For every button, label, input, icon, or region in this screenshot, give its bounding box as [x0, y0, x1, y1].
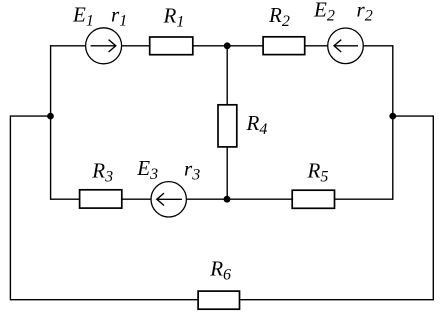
source E3 (circle with left arrow)	[151, 182, 186, 217]
node B: right junction	[389, 113, 396, 120]
wire: bottom horizontal net through R6 y=299.7	[10, 299, 433, 301]
svg-text:R4: R4	[246, 111, 268, 138]
wire: outer left vertical x=10.4	[9, 115, 11, 300]
resistor R1	[150, 37, 193, 55]
source E1 (circle with right arrow)	[86, 28, 122, 64]
svg-text:r1: r1	[111, 2, 127, 29]
svg-text:r3: r3	[184, 156, 200, 183]
node: top middle junction	[224, 42, 231, 49]
wire: middle vertical branch through R4 x=227.2	[226, 46, 228, 199]
resistor R4 (vertical)	[218, 105, 237, 147]
svg-text:R5: R5	[307, 159, 329, 186]
source E2 (circle with left arrow)	[328, 28, 364, 64]
resistor R2	[263, 37, 305, 55]
node: bottom middle junction	[224, 196, 231, 203]
svg-text:R3: R3	[91, 159, 113, 186]
svg-text:R1: R1	[163, 3, 185, 30]
wire: left inner vertical x=50.6	[50, 45, 52, 200]
svg-text:r2: r2	[357, 0, 373, 25]
wire: top horizontal net (E1-R1-node-R2-E2) y=45.8	[51, 45, 393, 47]
wire: left stub from node A to outer left	[10, 115, 50, 117]
resistor R5	[292, 190, 334, 208]
node A: left junction	[47, 113, 54, 120]
wire: right stub from node B to outer right	[393, 115, 434, 117]
svg-text:R2: R2	[268, 3, 290, 30]
wire: outer right vertical x=433.3	[432, 115, 434, 300]
svg-text:E1: E1	[72, 2, 94, 29]
svg-text:E3: E3	[136, 156, 158, 183]
resistor R3	[80, 190, 122, 208]
svg-text:R6: R6	[209, 256, 231, 283]
resistor R6	[198, 291, 239, 309]
wire: middle horizontal net (R3-E3-node-R5) y=199.2	[51, 198, 393, 200]
svg-text:E2: E2	[313, 0, 335, 25]
wire: right inner vertical x=392.8	[392, 45, 394, 200]
